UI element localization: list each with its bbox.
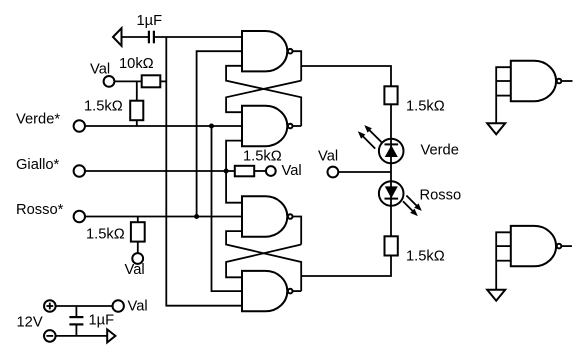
label R4 1.5kΩ — [86, 227, 125, 243]
terminal Val5 — [113, 300, 124, 311]
label Val1 — [90, 62, 110, 78]
terminal Val1 — [104, 76, 115, 87]
terminal Val3 — [132, 253, 143, 264]
svg-text:1.5kΩ: 1.5kΩ — [86, 227, 125, 243]
connector arrow P2 (points right) — [107, 329, 115, 342]
resistor R4 1.5k — [131, 222, 145, 241]
wire R2 to Verde line — [136, 120, 138, 126]
wire U1C bottom input feedback — [226, 231, 301, 291]
svg-text:1.5kΩ: 1.5kΩ — [406, 99, 445, 115]
svg-text:Val: Val — [125, 262, 145, 278]
node dot Giallo branch — [224, 169, 229, 174]
wire U1D output — [293, 290, 301, 292]
label Val4 — [318, 149, 338, 165]
wire U2A inputs to ground — [496, 67, 511, 123]
svg-text:1.5kΩ: 1.5kΩ — [243, 149, 282, 165]
label R6 1.5kΩ — [406, 249, 445, 265]
wire U1B output — [293, 125, 301, 127]
wire U2B output stub — [562, 245, 572, 247]
label R1 10kΩ — [119, 56, 154, 72]
node dot Rosso branch — [194, 214, 199, 219]
nand gate U1C — [242, 196, 293, 236]
terminal 12V plus — [44, 300, 56, 312]
resistor R1 10k — [142, 75, 161, 87]
ground GND1 — [487, 123, 505, 134]
svg-text:Rosso: Rosso — [420, 188, 462, 204]
svg-text:10kΩ: 10kΩ — [119, 56, 154, 72]
LED D1 Verde — [379, 139, 404, 164]
ground GND2 — [487, 290, 505, 301]
terminal Rosso* — [74, 211, 85, 222]
wire Val4 to LED node — [338, 171, 391, 173]
wire Rosso down to R4 — [137, 217, 139, 223]
wire U1D output branch to R6 — [301, 256, 391, 277]
wire C1 to U1A top input — [155, 36, 242, 38]
nand gate U1B — [242, 106, 293, 146]
label 12V — [17, 315, 43, 331]
wire Verde branch to U1D middle input — [212, 126, 243, 291]
nand gate U2B — [511, 226, 562, 266]
svg-text:1µF: 1µF — [137, 13, 163, 29]
wire U1B top input feedback — [226, 81, 301, 113]
node dot Verde branch — [209, 124, 214, 129]
wire Giallo to U1C top input — [226, 171, 242, 203]
svg-text:Rosso*: Rosso* — [16, 202, 64, 218]
wire RC node down to U1D bottom input — [166, 37, 242, 306]
resistor R3 1.5k — [235, 166, 254, 177]
terminal 12V minus — [44, 330, 56, 342]
terminal Val2 — [266, 166, 276, 176]
svg-text:Val: Val — [128, 299, 148, 315]
wire Val1 node down to R2 — [136, 81, 138, 100]
label Giallo* — [16, 157, 60, 173]
label Rosso* — [16, 202, 64, 218]
svg-text:1µF: 1µF — [89, 313, 115, 329]
nand gate U1A — [242, 31, 293, 71]
arrows D1 emission — [358, 125, 382, 149]
capacitor C1 — [149, 31, 154, 44]
nand gate U2A — [511, 61, 562, 101]
label C1 1µF — [137, 13, 163, 29]
label C2 1µF — [89, 313, 115, 329]
svg-text:1.5kΩ: 1.5kΩ — [406, 249, 445, 265]
label Val5 — [128, 299, 148, 315]
wire U1C output — [293, 217, 301, 245]
wire U1A output — [293, 51, 301, 80]
label R5 1.5kΩ — [406, 99, 445, 115]
wire R1 to RC node — [160, 80, 166, 82]
svg-text:Val: Val — [282, 163, 302, 179]
resistor R5 1.5k — [384, 86, 397, 104]
svg-text:12V: 12V — [17, 315, 43, 331]
terminal Verde* — [74, 120, 85, 131]
resistor R6 1.5k — [385, 236, 398, 255]
wire Rosso line — [85, 216, 242, 218]
wire Giallo to U1B bottom input — [226, 141, 242, 171]
svg-text:Val: Val — [90, 62, 110, 78]
wire plus rail — [56, 305, 113, 307]
svg-text:1.5kΩ: 1.5kΩ — [84, 99, 123, 115]
wire U1A output branch to R5 — [301, 66, 391, 86]
label Val3 — [125, 262, 145, 278]
wire R5 to LED chain — [390, 104, 392, 236]
label D2 Rosso — [420, 188, 462, 204]
svg-text:Giallo*: Giallo* — [16, 157, 60, 173]
wire Rosso branch to U1A middle input — [197, 51, 242, 216]
wire Giallo to R3 — [226, 170, 235, 172]
terminal Giallo* — [74, 165, 85, 176]
label D1 Verde — [421, 143, 459, 159]
wire U1D top input feedback — [226, 245, 301, 278]
wire U2A output stub — [562, 80, 573, 82]
wire Giallo line — [85, 170, 226, 172]
wire R4 to Val3 — [137, 242, 139, 254]
wire R3 to Val2 — [254, 170, 266, 172]
terminal Val4 — [328, 167, 339, 178]
svg-text:Verde: Verde — [421, 143, 459, 159]
capacitor C2 stubs — [75, 306, 77, 336]
svg-text:Val: Val — [318, 149, 338, 165]
wire Verde line — [85, 125, 242, 127]
capacitor C2 — [69, 317, 83, 324]
wire U2B inputs to ground — [496, 232, 511, 289]
nand gate U1D — [242, 271, 293, 311]
LED D2 Rosso — [379, 181, 404, 206]
connector arrow P1 (top-left, points left) — [113, 28, 122, 46]
arrows D2 emission — [403, 196, 422, 217]
wire U1A bottom input feedback — [226, 66, 301, 126]
wire P1 to C1 — [122, 36, 149, 38]
wire Val1 to R1 — [114, 80, 141, 82]
label R2 1.5kΩ — [84, 99, 123, 115]
label Verde* — [16, 111, 60, 127]
resistor R2 1.5k — [130, 101, 143, 121]
svg-text:Verde*: Verde* — [16, 111, 60, 127]
wire minus rail — [56, 335, 108, 337]
label Val2 — [282, 163, 302, 179]
label R3 1.5kΩ — [243, 149, 282, 165]
